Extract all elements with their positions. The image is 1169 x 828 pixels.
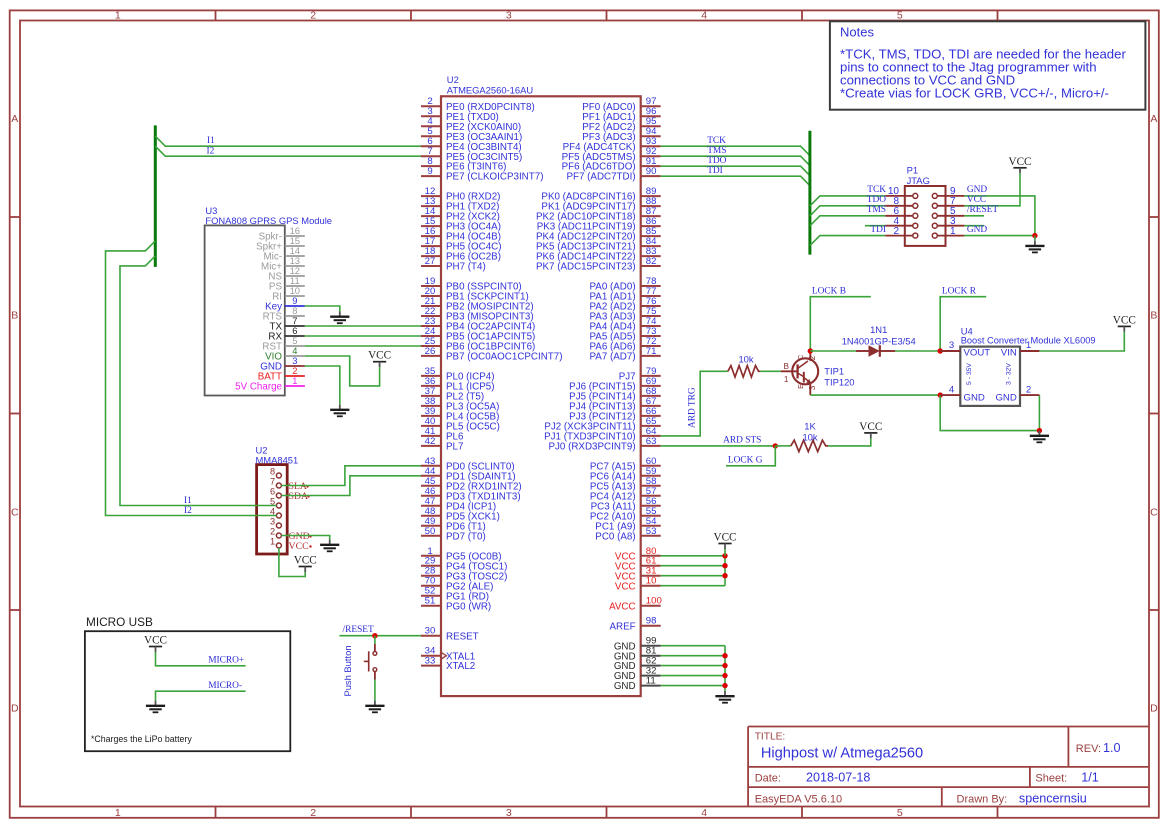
resistor R 10k <box>728 366 760 377</box>
svg-text:TIP120: TIP120 <box>824 376 854 387</box>
svg-text:VCC: VCC <box>144 635 167 647</box>
diode D 1N1 1N4001GP-E3/54 <box>856 345 895 357</box>
junction U4 GND left <box>938 392 943 397</box>
wire U3 TX to U2 PB4 <box>305 325 421 327</box>
svg-text:TCK: TCK <box>867 185 886 195</box>
wire U3 RST to U2 PB6 <box>305 345 421 347</box>
svg-text:2018-07-18: 2018-07-18 <box>806 770 870 784</box>
U3 pin 13 Mic+ <box>261 255 305 272</box>
P1 pin 3 <box>932 216 964 228</box>
wire MMA8451 GND to ground <box>281 536 329 540</box>
svg-text:RESET: RESET <box>446 631 479 642</box>
P1 pin 7 <box>932 196 964 208</box>
P1 pin 9 <box>932 186 964 198</box>
svg-text:MICRO-: MICRO- <box>208 681 242 691</box>
wire P1 pin4 stub <box>865 225 885 227</box>
svg-text:90: 90 <box>646 166 657 177</box>
svg-text:VCC: VCC <box>1113 314 1136 326</box>
U2 MMA8451 pin 2 <box>270 526 281 538</box>
svg-text:1: 1 <box>784 375 789 384</box>
wire MICRO- <box>156 691 246 700</box>
svg-text:5 - 35V: 5 - 35V <box>966 363 973 385</box>
svg-text:/RESET: /RESET <box>967 205 999 215</box>
svg-text:82: 82 <box>646 256 657 267</box>
wire 10k to TIP120 base <box>760 370 781 372</box>
U2 MMA8451 pin 5 <box>270 496 281 508</box>
svg-text:TCK: TCK <box>707 136 726 146</box>
net label SDA <box>289 491 310 502</box>
svg-text:2: 2 <box>310 807 316 819</box>
svg-text:ARD STS: ARD STS <box>723 436 761 446</box>
svg-text:PD7 (T0): PD7 (T0) <box>446 531 486 542</box>
wire TIP120 emitter to U4 GND <box>810 394 940 396</box>
transistor Q TIP1 TIP120 <box>781 351 818 395</box>
U4 pin 1 <box>1020 340 1039 351</box>
U2 right AREF pin <box>609 616 660 633</box>
svg-text:TDO: TDO <box>707 156 726 166</box>
U3 pin 8 RTS <box>263 305 305 322</box>
svg-text:GND: GND <box>995 392 1016 403</box>
wire MICRO+ <box>156 652 246 666</box>
svg-text:Date:: Date: <box>755 772 781 784</box>
svg-text:D: D <box>11 703 19 715</box>
header P1 JTAG body <box>905 165 946 246</box>
svg-text:9: 9 <box>427 166 432 177</box>
U2 left RESET pin <box>421 626 479 643</box>
svg-text:LOCK G: LOCK G <box>728 456 763 466</box>
svg-text:98: 98 <box>646 616 657 627</box>
svg-text:I1: I1 <box>207 136 215 146</box>
svg-text:2: 2 <box>808 355 817 360</box>
svg-text:2: 2 <box>1026 384 1031 395</box>
IC U2 MMA8451 body <box>256 444 299 554</box>
svg-text:Notes: Notes <box>840 25 874 40</box>
svg-text:PL7: PL7 <box>446 442 463 453</box>
wire LOCK R <box>940 297 986 351</box>
IC U2 ATMEGA2560-16AU body <box>441 74 641 696</box>
U3 pin 10 RI <box>272 285 305 302</box>
wire LOCK G <box>726 446 775 466</box>
wire bus to P1 pin8 TDO <box>810 206 885 216</box>
svg-text:Push Button: Push Button <box>342 645 353 696</box>
ground (push button) <box>374 701 376 706</box>
U2 left port H pins <box>421 186 502 273</box>
svg-text:GND: GND <box>967 185 988 195</box>
svg-text:PG0 (WR): PG0 (WR) <box>446 601 491 612</box>
svg-text:VCC: VCC <box>1008 156 1031 168</box>
U3 pin 2 BATT <box>258 365 305 382</box>
wire U4 GND left down <box>940 395 1039 431</box>
svg-text:26: 26 <box>425 346 436 357</box>
wire resistor to VCC <box>828 438 871 446</box>
MICRO USB block <box>85 615 290 751</box>
svg-text:VIN: VIN <box>1001 347 1017 358</box>
svg-text:TDI: TDI <box>707 166 723 176</box>
junction VCC rail 2 <box>722 563 727 568</box>
wire /RESET to U2 RESET <box>339 635 421 637</box>
svg-text:7: 7 <box>270 476 275 486</box>
wire TCK from U2 PF4 <box>661 146 810 156</box>
svg-text:1N4001GP-E3/54: 1N4001GP-E3/54 <box>842 336 916 347</box>
svg-text:50: 50 <box>425 526 436 537</box>
junction VCC rail 1 <box>722 553 727 558</box>
module U4 Boost Converter body <box>960 325 1095 406</box>
U2 MMA8451 pin 8 <box>270 466 281 478</box>
svg-text:63: 63 <box>646 436 657 447</box>
wire MMA8451 VCC <box>279 548 305 577</box>
svg-text:4: 4 <box>701 10 707 22</box>
U3 pin 14 Mic- <box>264 245 305 262</box>
P1 pin 2 <box>885 226 918 238</box>
wire I1 to U2 PE4 <box>155 136 421 146</box>
net label GND (MMA8451 pin2) <box>289 531 312 542</box>
U2 right VCC pins <box>615 546 661 593</box>
U2 MMA8451 pin 1 <box>270 536 281 548</box>
wire P1 pin9 GND <box>964 196 1035 236</box>
svg-text:1N1: 1N1 <box>870 324 887 335</box>
U3 pin 11 PS <box>269 275 305 292</box>
svg-text:1: 1 <box>292 375 297 386</box>
svg-text:10k: 10k <box>802 432 817 443</box>
U2 right port K pins <box>536 186 661 273</box>
wire I2 to U2 PE5 <box>155 146 421 156</box>
svg-text:VCC: VCC <box>859 421 882 433</box>
svg-text:PJ0 (RXD3PCINT9): PJ0 (RXD3PCINT9) <box>548 442 635 453</box>
svg-text:REV:: REV: <box>1076 743 1101 755</box>
svg-text:TMS: TMS <box>707 146 726 156</box>
svg-text:C: C <box>796 355 805 360</box>
U2 right port A pins <box>589 276 660 363</box>
wire I2 bus to MMA8451 pin4 <box>106 241 277 516</box>
U3 pin 6 RX <box>268 325 304 342</box>
junction collector/LOCK B <box>808 348 813 353</box>
svg-text:VOUT: VOUT <box>964 347 991 358</box>
svg-text:1.0: 1.0 <box>1103 741 1121 755</box>
wire U4 VIN to VCC <box>1039 332 1124 351</box>
svg-text:1: 1 <box>1026 340 1031 351</box>
notes box <box>830 21 1146 109</box>
svg-text:B: B <box>11 310 18 322</box>
svg-text:ARD TRG: ARD TRG <box>687 387 697 428</box>
U3 pin 16 Spkr- <box>259 225 305 242</box>
P1 pin 1 <box>932 226 964 238</box>
svg-text:XTAL2: XTAL2 <box>446 661 475 672</box>
U2 MMA8451 pin 4 <box>270 506 281 518</box>
U3 pin 1 5V Charge <box>235 375 305 392</box>
svg-text:JTAG: JTAG <box>907 175 930 186</box>
wire U3 VIO to VCC <box>305 356 380 386</box>
svg-text:2: 2 <box>893 226 899 237</box>
junction /RESET <box>372 633 377 638</box>
svg-text:51: 51 <box>425 596 436 607</box>
U3 pin 12 NS <box>268 265 304 282</box>
svg-text:3: 3 <box>808 385 817 390</box>
svg-text:PC0 (A8): PC0 (A8) <box>595 531 635 542</box>
junction GND rail 2 <box>722 663 727 668</box>
U2 left port D pins <box>421 456 522 543</box>
wire TDI from U2 PF7 <box>661 176 810 186</box>
svg-text:5: 5 <box>897 10 903 22</box>
svg-text:1: 1 <box>950 226 956 237</box>
svg-text:PF7 (ADC7TDI): PF7 (ADC7TDI) <box>566 172 635 183</box>
wire P1 pin1 GND <box>964 235 1035 237</box>
svg-text:D: D <box>1150 703 1158 715</box>
svg-text:3: 3 <box>270 516 275 526</box>
P1 pin 10 <box>885 186 918 198</box>
svg-text:PK7 (ADC15PCINT23): PK7 (ADC15PCINT23) <box>536 262 636 273</box>
wires U2 GND pins to GND rail <box>661 646 725 691</box>
U4 pin 4 <box>940 384 960 395</box>
P1 pin 5 <box>932 206 964 218</box>
junction GND rail 1 <box>722 653 727 658</box>
svg-text:*Charges the LiPo battery: *Charges the LiPo battery <box>91 734 192 744</box>
U2 MMA8451 pin 3 <box>270 516 281 528</box>
junction GND rail 4 <box>722 683 727 688</box>
ground (MMA8451 pin2) <box>329 540 331 545</box>
svg-text:5: 5 <box>897 807 903 819</box>
svg-text:TDI: TDI <box>870 225 886 235</box>
U3 pin 7 TX <box>269 315 304 332</box>
svg-text:C: C <box>1150 506 1158 518</box>
svg-text:1/1: 1/1 <box>1081 770 1099 784</box>
P1 pin 8 <box>885 196 918 208</box>
ground (U2 supply) <box>724 691 726 696</box>
svg-text:4: 4 <box>701 807 707 819</box>
label TIP1 TIP120 <box>824 365 854 387</box>
svg-text:A: A <box>11 113 18 125</box>
svg-text:C: C <box>11 506 19 518</box>
svg-text:PB7 (OC0AOC1CPCINT7): PB7 (OC0AOC1CPCINT7) <box>446 352 563 363</box>
wire ARD STS from U2 PJ0 <box>661 445 776 447</box>
wire LOCK B <box>810 297 871 351</box>
svg-text:VCC: VCC <box>713 532 736 544</box>
wire bus to P1 pin2 TDI <box>810 236 885 246</box>
svg-text:6: 6 <box>270 486 275 496</box>
U3 pin 4 VIO <box>265 345 305 362</box>
junction P1 ground <box>1032 233 1037 238</box>
wire SLA to U2 PD0 <box>281 466 421 486</box>
svg-text:AREF: AREF <box>609 621 635 632</box>
U2 right port C pins <box>590 456 661 543</box>
wire bus to P1 pin10 TCK <box>810 196 885 206</box>
svg-text:spencernsiu: spencernsiu <box>1019 791 1087 805</box>
net label VCC (MMA8451 pin1) <box>289 541 312 552</box>
ground (U3 GND) <box>339 405 341 410</box>
svg-text:A: A <box>1150 113 1157 125</box>
U2 MMA8451 pin 7 <box>270 476 281 488</box>
svg-text:LOCK B: LOCK B <box>812 286 846 296</box>
svg-text:71: 71 <box>646 346 657 357</box>
ground (MICRO USB) <box>155 701 157 706</box>
svg-text:GND: GND <box>614 681 636 692</box>
U3 pin 3 GND <box>260 355 305 372</box>
svg-text:5V Charge: 5V Charge <box>235 382 282 393</box>
svg-text:FONA808 GPRS GPS Module: FONA808 GPRS GPS Module <box>205 215 332 226</box>
junction U4 ground <box>1037 428 1042 433</box>
svg-text:11: 11 <box>646 676 656 687</box>
U4 pin 3 <box>940 340 960 351</box>
svg-text:VCC: VCC <box>294 555 317 567</box>
svg-text:3: 3 <box>506 807 512 819</box>
svg-text:2: 2 <box>270 526 275 536</box>
svg-text:3 - 32V: 3 - 32V <box>1006 363 1013 385</box>
svg-text:/RESET: /RESET <box>343 625 375 635</box>
svg-text:B: B <box>1150 310 1157 322</box>
wire bus to P1 pin6 TMS <box>810 216 885 226</box>
wire U4 GND right down <box>1038 395 1040 431</box>
ground (P1) <box>1034 241 1036 246</box>
module U3 FONA808 body <box>205 205 332 396</box>
wire TDO from U2 PF6 <box>661 166 810 176</box>
wire TMS from U2 PF5 <box>661 156 810 166</box>
svg-text:MICRO USB: MICRO USB <box>86 615 153 629</box>
U2 right GND pins <box>614 636 661 693</box>
svg-text:I2: I2 <box>184 506 192 516</box>
U4 pin 2 <box>1020 384 1039 395</box>
svg-text:PA7 (AD7): PA7 (AD7) <box>589 352 635 363</box>
wire P1 pin7 VCC <box>964 173 1020 206</box>
U2 MMA8451 pin 6 <box>270 486 281 498</box>
svg-text:8: 8 <box>270 466 275 476</box>
svg-text:LOCK R: LOCK R <box>942 286 977 296</box>
wire U3 GND to ground <box>305 366 340 405</box>
U2 XTAL1 clock mark <box>441 652 446 659</box>
svg-text:1K: 1K <box>804 421 816 432</box>
svg-text:EasyEDA V5.6.10: EasyEDA V5.6.10 <box>755 793 842 805</box>
svg-text:E: E <box>796 384 805 389</box>
svg-text:42: 42 <box>425 436 436 447</box>
svg-text:AVCC: AVCC <box>609 601 636 612</box>
wire P1 pin3 stub <box>964 225 984 227</box>
svg-text:30: 30 <box>425 626 436 637</box>
svg-text:GND: GND <box>964 392 985 403</box>
svg-text:1: 1 <box>270 536 275 546</box>
U3 pin 5 RST <box>262 335 304 352</box>
wire ARD TRG from U2 PJ1 <box>661 371 728 436</box>
wire diode to U4 VOUT <box>895 350 940 352</box>
U2 left port G pins <box>421 546 507 613</box>
U3 pin 15 Spkr+ <box>256 235 305 252</box>
U2 left XTAL pins <box>421 646 475 673</box>
wire SDA to U2 PD1 <box>281 476 421 496</box>
svg-text:Drawn By:: Drawn By: <box>957 793 1008 805</box>
svg-text:1: 1 <box>115 807 121 819</box>
svg-text:I1: I1 <box>184 496 192 506</box>
svg-text:PE7 (CLKOICP3INT7): PE7 (CLKOICP3INT7) <box>446 172 543 183</box>
bus left vertical <box>154 125 157 267</box>
junction GND rail 3 <box>722 673 727 678</box>
junction VCC rail 3 <box>722 573 727 578</box>
wire push button to ground <box>374 680 376 701</box>
ground (U4) <box>1038 431 1040 436</box>
push button S1 <box>364 644 377 680</box>
U2 left port E pins <box>421 96 543 183</box>
svg-text:3: 3 <box>506 10 512 22</box>
svg-text:VCC: VCC <box>967 195 986 205</box>
svg-text:10: 10 <box>646 576 657 587</box>
wire junction to resistor <box>775 445 791 447</box>
svg-text:MICRO+: MICRO+ <box>208 656 244 666</box>
svg-text:ATMEGA2560-16AU: ATMEGA2560-16AU <box>447 85 534 96</box>
svg-text:TDO: TDO <box>867 195 886 205</box>
P1 pin 4 <box>885 216 918 228</box>
svg-text:27: 27 <box>425 256 436 267</box>
svg-text:B: B <box>783 362 789 371</box>
svg-text:53: 53 <box>646 526 657 537</box>
svg-text:Highpost w/ Atmega2560: Highpost w/ Atmega2560 <box>761 746 923 762</box>
svg-text:GND: GND <box>967 225 988 235</box>
wire U3 Key to ground <box>305 306 340 312</box>
svg-text:I2: I2 <box>207 146 215 156</box>
wire U3 RX to U2 PB5 <box>305 335 421 337</box>
U3 pin 9 Key <box>265 295 305 312</box>
wire I1 bus to MMA8451 pin5 <box>120 256 276 506</box>
title block <box>748 727 1148 807</box>
U2 left port L pins <box>421 366 500 453</box>
svg-text:VCC: VCC <box>368 350 391 362</box>
wire junction to ground <box>1034 236 1036 241</box>
svg-text:100: 100 <box>646 596 662 607</box>
wires U2 VCC pins to VCC rail <box>661 556 725 586</box>
wire VCC symbol stem <box>724 549 726 556</box>
U2 right port F pins <box>562 96 661 183</box>
junction U4 VOUT <box>938 348 943 353</box>
U2 right port J pins <box>544 366 661 453</box>
wire P1 pin5 /RESET <box>964 215 984 217</box>
svg-text:2: 2 <box>310 10 316 22</box>
svg-text:TITLE:: TITLE: <box>755 732 786 743</box>
svg-text:3: 3 <box>949 340 954 351</box>
U2 right AVCC pin <box>609 596 662 613</box>
bus right vertical <box>808 131 811 255</box>
P1 pin 6 <box>885 206 918 218</box>
svg-text:33: 33 <box>425 656 436 667</box>
svg-text:VCC: VCC <box>289 541 309 552</box>
svg-text:TIP1: TIP1 <box>824 365 844 376</box>
svg-text:1: 1 <box>115 10 121 22</box>
wire collector junction to diode <box>810 350 856 352</box>
svg-text:Sheet:: Sheet: <box>1035 772 1067 784</box>
wire junction to push button <box>374 636 376 644</box>
junction ARD STS <box>773 443 778 448</box>
svg-text:TMS: TMS <box>867 205 886 215</box>
svg-text:PH7 (T4): PH7 (T4) <box>446 262 486 273</box>
U2 left port B pins <box>421 276 563 363</box>
svg-text:10k: 10k <box>738 354 753 365</box>
resistor R 1K 10k <box>791 440 828 451</box>
svg-text:VCC: VCC <box>615 581 636 592</box>
svg-text:U2: U2 <box>447 74 459 85</box>
svg-text:4: 4 <box>949 384 955 395</box>
svg-text:MMA8451: MMA8451 <box>256 455 299 466</box>
svg-text:*Create vias for LOCK GRB, VCC: *Create vias for LOCK GRB, VCC+/-, Micro… <box>840 85 1109 100</box>
net label SLA <box>289 481 309 492</box>
ground (U3 Key) <box>339 312 341 317</box>
